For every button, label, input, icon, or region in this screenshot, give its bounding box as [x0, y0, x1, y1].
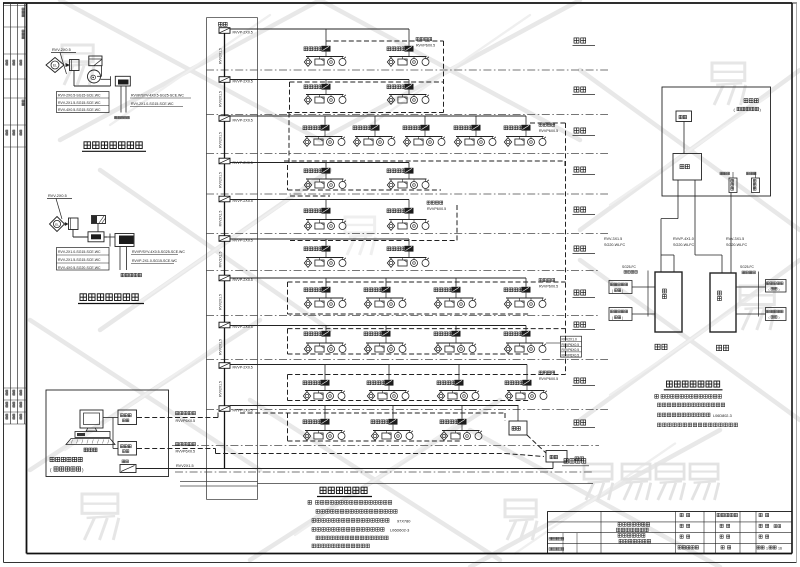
- svg-text:SG25-FC: SG25-FC: [622, 265, 637, 269]
- svg-text:): ): [622, 316, 623, 320]
- svg-text:97X780: 97X780: [397, 519, 411, 524]
- svg-text:RVV-2X0.5: RVV-2X0.5: [48, 194, 67, 198]
- svg-text:RVV-2X1.5-SG15-SCE.WC: RVV-2X1.5-SG15-SCE.WC: [58, 101, 101, 105]
- svg-text:RVVP6X0.5: RVVP6X0.5: [427, 207, 446, 211]
- svg-text:SG20-WLFC: SG20-WLFC: [604, 243, 625, 247]
- svg-text:RVVP-2X0.5: RVVP-2X0.5: [233, 409, 253, 413]
- svg-text:RVV2X1.5: RVV2X1.5: [219, 339, 223, 355]
- svg-text:RVV2X1.5: RVV2X1.5: [219, 91, 223, 107]
- svg-text:): ): [622, 289, 623, 293]
- svg-text:RVV-2X1.5-SG15-SCE.WC: RVV-2X1.5-SG15-SCE.WC: [58, 258, 101, 262]
- svg-text:L06D602-3: L06D602-3: [390, 528, 409, 533]
- svg-text:RVVP-2X0.5: RVVP-2X0.5: [233, 31, 253, 35]
- svg-text:RVVP-2X0.5: RVVP-2X0.5: [233, 366, 253, 370]
- svg-text:RVV-3X1.5: RVV-3X1.5: [604, 237, 622, 241]
- svg-text:RVVP6X0.5: RVVP6X0.5: [562, 353, 580, 357]
- svg-text:RVVP-2X0.5: RVVP-2X0.5: [233, 119, 253, 123]
- svg-text:RVV2X1.5: RVV2X1.5: [176, 464, 194, 468]
- svg-text:RVVP6X0.5: RVVP6X0.5: [562, 348, 580, 352]
- svg-text:SG25-FC: SG25-FC: [740, 265, 755, 269]
- svg-text:EL: EL: [55, 222, 59, 226]
- svg-text:RVVP6X0.5: RVVP6X0.5: [539, 129, 558, 133]
- svg-text:RVVP6X0.5: RVVP6X0.5: [539, 377, 558, 381]
- svg-text:RVV-2X1.0-SG15-SCE.WC: RVV-2X1.0-SG15-SCE.WC: [58, 250, 101, 254]
- svg-text:RVV2X1.5: RVV2X1.5: [219, 172, 223, 188]
- svg-text:RVV-2X0.5-SG15-SCE.WC: RVV-2X0.5-SG15-SCE.WC: [58, 94, 101, 98]
- svg-text:RVVP6X0.5: RVVP6X0.5: [562, 343, 580, 347]
- svg-text:RVVP-2X1.0-SG15-SCE.WC: RVVP-2X1.0-SG15-SCE.WC: [132, 259, 178, 263]
- svg-text:RVV-3X1.5: RVV-3X1.5: [726, 237, 744, 241]
- svg-text:RVV-2X1.0-SG15-SCE.WC: RVV-2X1.0-SG15-SCE.WC: [131, 102, 174, 106]
- svg-text:EL: EL: [53, 64, 57, 68]
- svg-text:RVVP-2X0.5: RVVP-2X0.5: [233, 278, 253, 282]
- svg-text:RVV-4X0.5-SG15-SCE.WC: RVV-4X0.5-SG15-SCE.WC: [58, 108, 101, 112]
- svg-text:RVV-2X0.5: RVV-2X0.5: [52, 48, 71, 52]
- svg-text:): ): [779, 287, 780, 291]
- svg-text:SG20-WLFC: SG20-WLFC: [673, 243, 694, 247]
- svg-text:RVV2X1.5: RVV2X1.5: [219, 48, 223, 64]
- svg-text:RVVP6X0.5: RVVP6X0.5: [176, 419, 196, 423]
- svg-text:RVVP/SYV-4X0.5-SG25-SCE.WC: RVVP/SYV-4X0.5-SG25-SCE.WC: [131, 94, 184, 98]
- svg-text:RVVP-2X0.5: RVVP-2X0.5: [233, 80, 253, 84]
- svg-text:RVV2X1.5: RVV2X1.5: [219, 381, 223, 397]
- svg-text:16: 16: [778, 546, 782, 550]
- svg-text:SG20-WLFC: SG20-WLFC: [726, 243, 747, 247]
- svg-text:RVV2X1.5: RVV2X1.5: [219, 252, 223, 268]
- svg-text:RVVP6X0.5: RVVP6X0.5: [176, 449, 196, 453]
- svg-text:RVV-4X0.5-SG20-SCE.WC: RVV-4X0.5-SG20-SCE.WC: [58, 266, 101, 270]
- svg-text:RVVP/SYV-4X0.5-SG25-SCE.WC: RVVP/SYV-4X0.5-SG25-SCE.WC: [132, 250, 185, 254]
- svg-text:RVVP6X0.5: RVVP6X0.5: [416, 44, 435, 48]
- svg-text:RVV2X1.5: RVV2X1.5: [219, 211, 223, 227]
- svg-text:RVV2X1.5: RVV2X1.5: [219, 294, 223, 310]
- svg-text:1: 1: [766, 546, 768, 550]
- svg-text:): ): [779, 316, 780, 320]
- svg-text:RVVP-2X0.5: RVVP-2X0.5: [233, 161, 253, 165]
- svg-text:RVVP-4X1.0: RVVP-4X1.0: [673, 237, 694, 241]
- svg-text:RVVP6X0.5: RVVP6X0.5: [539, 285, 558, 289]
- svg-text:RVV2X1.5: RVV2X1.5: [219, 132, 223, 148]
- svg-text:L06D802-3: L06D802-3: [713, 414, 732, 418]
- svg-text:RVV2X1.0: RVV2X1.0: [562, 338, 578, 342]
